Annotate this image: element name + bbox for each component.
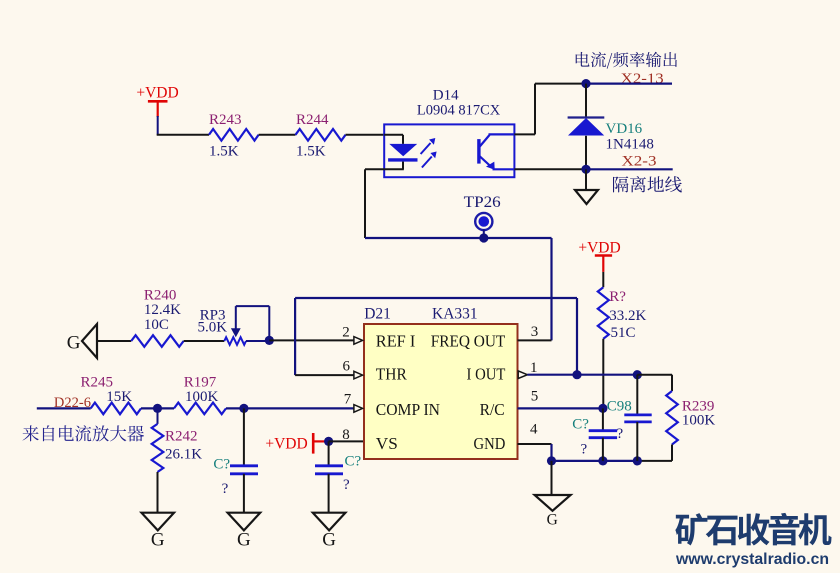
node (junction) bbox=[547, 456, 556, 465]
capacitor C98 bbox=[636, 375, 638, 415]
svg-text:1.5K: 1.5K bbox=[296, 144, 326, 160]
svg-text:VD16: VD16 bbox=[606, 121, 643, 137]
svg-text:R?: R? bbox=[609, 289, 626, 305]
capacitor C? (VS) bbox=[328, 441, 330, 465]
node (junction) bbox=[324, 437, 333, 446]
svg-text:COMP IN: COMP IN bbox=[376, 400, 440, 419]
node (junction) bbox=[239, 404, 248, 413]
wire bbox=[602, 339, 604, 409]
diode VD16 1N4148 bbox=[568, 116, 605, 118]
wire bbox=[157, 116, 159, 135]
svg-text:I OUT: I OUT bbox=[467, 365, 506, 384]
phototransistor inside D14 bbox=[477, 139, 480, 164]
wire X2-13 bbox=[586, 82, 672, 84]
wire bbox=[585, 84, 587, 118]
net label 隔离地线 bbox=[613, 176, 682, 192]
ground bbox=[313, 513, 346, 531]
wire X2-3 bbox=[586, 168, 673, 170]
svg-text:C?: C? bbox=[345, 453, 362, 469]
wire bottom net bbox=[552, 460, 638, 462]
wire bbox=[637, 374, 672, 376]
svg-text:51C: 51C bbox=[611, 325, 636, 341]
node (junction) bbox=[581, 165, 590, 174]
ground bbox=[228, 513, 261, 531]
svg-text:R243: R243 bbox=[209, 112, 242, 128]
capacitor C? (COMP IN) bbox=[243, 408, 245, 465]
node (junction) bbox=[598, 404, 607, 413]
svg-text:33.2K: 33.2K bbox=[609, 308, 646, 324]
wire bbox=[328, 474, 330, 513]
resistor R? 33.2K 51C bbox=[598, 287, 609, 339]
wire bbox=[243, 474, 245, 513]
potentiometer RP3 5.0K bbox=[224, 337, 246, 345]
ground bbox=[142, 513, 175, 531]
ground bbox=[535, 495, 571, 511]
svg-text:G: G bbox=[67, 333, 81, 354]
svg-text:FREQ OUT: FREQ OUT bbox=[431, 332, 506, 351]
wire bbox=[483, 229, 485, 238]
node (junction) bbox=[153, 404, 162, 413]
svg-text:100K: 100K bbox=[682, 413, 716, 429]
resistor R245 15K bbox=[91, 403, 141, 415]
svg-text:X2-3: X2-3 bbox=[622, 154, 657, 170]
svg-text:6: 6 bbox=[343, 358, 351, 374]
wire bbox=[259, 134, 296, 136]
svg-text:100K: 100K bbox=[185, 389, 219, 405]
node (junction) bbox=[479, 233, 488, 242]
svg-text:C?: C? bbox=[572, 417, 589, 433]
svg-text:8: 8 bbox=[342, 427, 350, 443]
svg-text:C?: C? bbox=[213, 457, 230, 473]
wire bbox=[514, 133, 535, 135]
svg-text:?: ? bbox=[617, 426, 624, 442]
ground (isolated) bbox=[575, 190, 598, 204]
svg-text:GND: GND bbox=[474, 434, 506, 453]
svg-text:3: 3 bbox=[531, 324, 539, 340]
svg-text:R242: R242 bbox=[165, 428, 198, 444]
light arrows bbox=[421, 143, 431, 154]
LED inside D14 bbox=[389, 144, 417, 156]
svg-text:?: ? bbox=[222, 481, 229, 497]
svg-text:C98: C98 bbox=[607, 398, 632, 414]
svg-text:D14: D14 bbox=[433, 88, 459, 104]
wire to pin 6 bbox=[295, 374, 354, 376]
wire bbox=[184, 340, 225, 342]
svg-text:2: 2 bbox=[342, 324, 350, 340]
svg-text:10C: 10C bbox=[144, 317, 169, 333]
svg-text:L0904 817CX: L0904 817CX bbox=[417, 103, 501, 119]
wire bbox=[671, 445, 673, 461]
svg-text:G: G bbox=[547, 512, 558, 529]
svg-text:1N4148: 1N4148 bbox=[606, 137, 654, 153]
wire bbox=[585, 169, 587, 190]
resistor R242 26.1K bbox=[157, 408, 159, 424]
svg-text:1.5K: 1.5K bbox=[209, 144, 239, 160]
wire pin 3 bbox=[518, 339, 552, 341]
svg-text:D21: D21 bbox=[364, 306, 391, 323]
svg-text:G: G bbox=[322, 530, 336, 551]
wire bbox=[37, 407, 91, 409]
svg-text:REF I: REF I bbox=[376, 332, 416, 351]
svg-text:?: ? bbox=[581, 442, 588, 458]
wire bbox=[585, 136, 587, 170]
node (junction) bbox=[633, 456, 642, 465]
wire THR net bbox=[295, 297, 577, 299]
resistor R197 100K bbox=[174, 403, 226, 415]
svg-text:5: 5 bbox=[531, 388, 539, 404]
op-amp U D21 KA331 bbox=[364, 324, 518, 459]
wire pin 5 bbox=[518, 407, 603, 409]
node (junction) bbox=[572, 370, 581, 379]
wire to pin 8 bbox=[329, 440, 364, 442]
resistor R240 12.4K 10C bbox=[131, 335, 183, 347]
svg-text:4: 4 bbox=[530, 421, 538, 437]
node (junction) bbox=[265, 336, 274, 345]
svg-text:VS: VS bbox=[376, 434, 398, 453]
svg-text:12.4K: 12.4K bbox=[144, 302, 181, 318]
wire bbox=[97, 340, 131, 342]
wire bbox=[365, 168, 384, 170]
svg-text:26.1K: 26.1K bbox=[165, 446, 202, 462]
svg-text:+VDD: +VDD bbox=[136, 85, 178, 102]
wire bbox=[246, 340, 269, 342]
wire bbox=[226, 407, 354, 409]
svg-text:THR: THR bbox=[376, 365, 407, 384]
svg-text:www.crystalradio.cn: www.crystalradio.cn bbox=[675, 551, 829, 568]
wire bbox=[550, 238, 552, 340]
svg-text:G: G bbox=[151, 530, 165, 551]
svg-text:+VDD: +VDD bbox=[578, 239, 620, 256]
wire I OUT net bbox=[527, 374, 637, 376]
logo 矿石收音机 bbox=[675, 513, 831, 546]
wire bbox=[346, 134, 385, 136]
RP3 wiper arrow and loop bbox=[235, 306, 237, 329]
svg-text:R244: R244 bbox=[296, 112, 329, 128]
svg-text:KA331: KA331 bbox=[432, 306, 478, 323]
wire pin 4 bbox=[518, 443, 552, 445]
wire TP26 net bbox=[365, 237, 552, 239]
node (junction) bbox=[598, 456, 607, 465]
net label 来自电流放大器 bbox=[23, 425, 144, 441]
resistor R244 bbox=[296, 129, 346, 141]
svg-text:+VDD: +VDD bbox=[265, 435, 307, 452]
wire bbox=[551, 461, 553, 495]
wire to pin 2 bbox=[269, 339, 354, 341]
wire bbox=[602, 272, 604, 287]
svg-text:15K: 15K bbox=[106, 389, 132, 405]
svg-text:?: ? bbox=[343, 477, 350, 493]
svg-text:TP26: TP26 bbox=[464, 194, 501, 211]
resistor R243 bbox=[209, 129, 259, 141]
wire bbox=[384, 134, 403, 136]
wire bbox=[514, 168, 586, 170]
wire bbox=[157, 472, 159, 513]
net label 电流/频率输出 bbox=[576, 52, 677, 69]
wire bbox=[141, 407, 174, 409]
svg-text:5.0K: 5.0K bbox=[198, 320, 228, 336]
node (junction) bbox=[581, 79, 590, 88]
svg-text:7: 7 bbox=[344, 391, 352, 407]
node (junction) bbox=[633, 370, 642, 379]
svg-text:R/C: R/C bbox=[480, 400, 505, 419]
wire bbox=[157, 134, 209, 136]
resistor R239 100K bbox=[666, 391, 678, 445]
svg-text:G: G bbox=[237, 530, 251, 551]
